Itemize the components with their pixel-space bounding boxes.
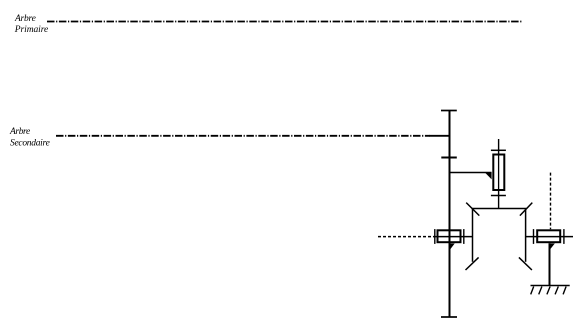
ground: baseline [531, 285, 570, 287]
left gear: right bearing tick [463, 229, 465, 244]
ground: hatch 1 [531, 287, 534, 295]
shaft: secondary vertical shaft [449, 110, 451, 317]
carrier frame: top bar [472, 208, 527, 210]
ground: hatch 4 [555, 287, 558, 295]
svg-text:Primaire: Primaire [14, 25, 48, 35]
arm: horizontal connector from shaft to pinion P [449, 172, 491, 174]
svg-text:Arbre: Arbre [14, 14, 36, 24]
weld wedge below left gear [450, 244, 455, 250]
ground: hatch 3 [547, 287, 550, 295]
label: Arbre Secondaire [9, 127, 50, 148]
ground: hatch 2 [539, 287, 542, 295]
weld wedge on pinion P left side [485, 173, 491, 179]
pinion P: shaft link down to carrier [498, 191, 500, 209]
pinion P: upper bearing tick [491, 149, 506, 151]
left gear axis: dashed center line [378, 236, 434, 238]
svg-text:Arbre: Arbre [9, 127, 30, 137]
right gear axis: dashed vertical projection line [550, 173, 552, 230]
shaft end tick bottom [441, 316, 457, 318]
bevel tooth mark top-left [466, 203, 479, 216]
axis: secondary center line solid end segment [430, 135, 451, 137]
right gear axis: solid center line [526, 236, 573, 238]
shaft end tick top [441, 110, 457, 112]
left gear axis: solid segment through gear to carrier [434, 236, 472, 238]
carrier frame: right leg [525, 209, 527, 262]
right gear: shaft down to ground [549, 243, 551, 285]
axis: primary shaft center line [47, 21, 522, 23]
pinion P: axis line through body [498, 154, 500, 191]
axis: secondary shaft center line [56, 135, 430, 137]
left gear: body rectangle [438, 230, 461, 242]
right gear: right bearing tick [563, 229, 565, 244]
bevel tooth mark bottom-right [519, 257, 532, 270]
right gear: body rectangle [537, 230, 560, 242]
bevel tooth mark bottom-left [466, 257, 479, 270]
shaft tick middle [441, 157, 457, 159]
left gear: left bearing tick [434, 229, 436, 244]
right gear: left bearing tick [533, 229, 535, 244]
svg-text:Secondaire: Secondaire [10, 138, 50, 148]
label: Arbre Primaire [14, 14, 48, 35]
carrier frame: left leg [472, 209, 474, 262]
weld wedge below right gear [550, 244, 555, 250]
bevel tooth mark top-right [520, 203, 532, 216]
pinion P: lower bearing tick [491, 195, 506, 197]
pinion P: shaft stub above [498, 139, 500, 154]
pinion P: gear body rectangle [493, 155, 504, 191]
ground: hatch 5 [563, 287, 566, 295]
